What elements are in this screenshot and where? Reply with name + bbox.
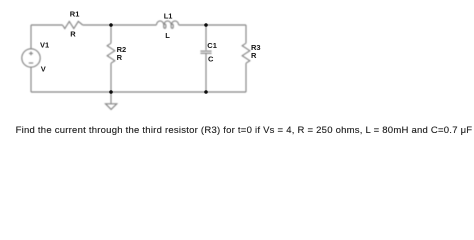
svg-text:R: R	[70, 30, 76, 39]
svg-text:C1: C1	[207, 41, 217, 50]
svg-text:V: V	[41, 65, 46, 74]
svg-text:L1: L1	[164, 11, 173, 20]
svg-text:R: R	[117, 53, 123, 62]
svg-text:V1: V1	[40, 40, 49, 49]
svg-text:L: L	[165, 31, 170, 40]
svg-text:C: C	[208, 55, 214, 64]
svg-text:R: R	[251, 51, 257, 60]
svg-text:R1: R1	[70, 10, 80, 19]
